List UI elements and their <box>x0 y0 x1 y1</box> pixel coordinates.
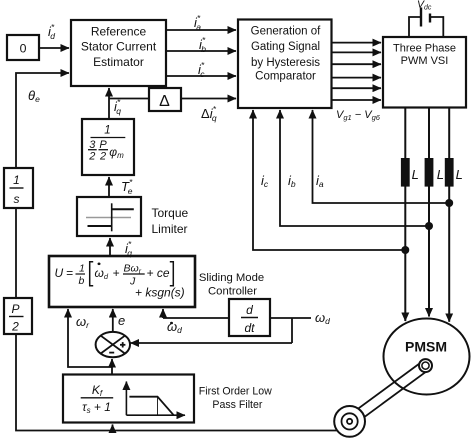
svg-text:Pass Filter: Pass Filter <box>212 399 263 411</box>
svg-text:+ ce: + ce <box>147 266 170 280</box>
svg-text:2: 2 <box>11 320 19 334</box>
svg-text:1: 1 <box>13 173 20 187</box>
svg-text:Gating Signal: Gating Signal <box>251 41 320 53</box>
svg-text:Δi*q: Δi*q <box>201 104 217 123</box>
svg-text:τs + 1: τs + 1 <box>82 400 111 415</box>
svg-text:+ ksgn(s): + ksgn(s) <box>135 286 185 300</box>
svg-text:P: P <box>11 302 19 316</box>
svg-text:T*e: T*e <box>121 177 133 196</box>
svg-text:1: 1 <box>79 263 85 275</box>
svg-text:=: = <box>66 266 73 280</box>
svg-text:i*q: i*q <box>125 239 132 258</box>
svg-text:i*b: i*b <box>199 35 206 54</box>
svg-text:U: U <box>55 266 64 280</box>
svg-text:Three Phase: Three Phase <box>393 43 456 55</box>
svg-text:s: s <box>14 192 20 206</box>
svg-text:Δ: Δ <box>159 93 170 110</box>
svg-text:1: 1 <box>104 125 110 137</box>
svg-text:2: 2 <box>99 151 106 163</box>
svg-text:Comparator: Comparator <box>255 71 316 83</box>
svg-text:i*c: i*c <box>198 60 205 79</box>
svg-text:2: 2 <box>88 151 95 163</box>
svg-text:First Order Low: First Order Low <box>199 386 272 398</box>
svg-text:Controller: Controller <box>208 286 257 298</box>
svg-text:L: L <box>412 167 419 182</box>
svg-text:0: 0 <box>20 42 27 56</box>
svg-text:by Hysteresis: by Hysteresis <box>251 57 320 69</box>
svg-text:PWM VSI: PWM VSI <box>401 55 449 67</box>
svg-text:+: + <box>113 266 120 280</box>
svg-text:Generation of: Generation of <box>251 25 321 37</box>
svg-text:d: d <box>246 303 253 317</box>
svg-text:L: L <box>456 167 463 182</box>
svg-text:Limiter: Limiter <box>152 222 188 236</box>
svg-text:Sliding Mode: Sliding Mode <box>199 272 264 284</box>
svg-text:L: L <box>437 167 444 182</box>
svg-text:dt: dt <box>244 321 255 335</box>
svg-text:e: e <box>118 313 125 328</box>
svg-text:Reference: Reference <box>91 25 147 39</box>
svg-text:Stator Current: Stator Current <box>81 39 157 53</box>
svg-text:Estimator: Estimator <box>93 55 144 69</box>
svg-text:i*d: i*d <box>48 22 55 41</box>
svg-text:b: b <box>79 275 85 287</box>
svg-text:i*q: i*q <box>114 97 121 116</box>
svg-text:Torque: Torque <box>152 206 189 220</box>
svg-text:PMSM: PMSM <box>405 339 447 355</box>
svg-text:i*a: i*a <box>194 13 201 32</box>
